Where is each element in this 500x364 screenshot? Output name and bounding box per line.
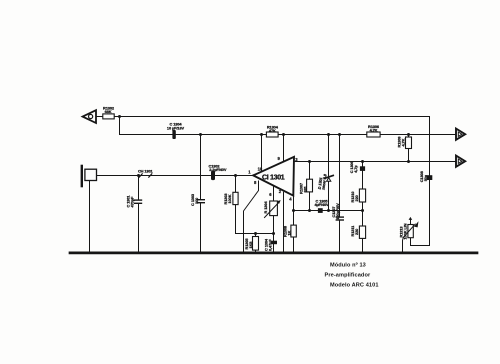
node junction rail2 R1309 [407, 133, 410, 136]
capacitor C1308 [427, 175, 433, 180]
wire rail2 [120, 134, 456, 136]
wire pin2 path [283, 192, 285, 252]
node junction rail2 D1301 [327, 133, 330, 136]
wire right vertical from top rail [411, 117, 430, 246]
connector output triangle 2 [456, 156, 465, 167]
svg-text:CI 1301: CI 1301 [262, 173, 285, 181]
resistor R1308 [291, 225, 296, 237]
capacitor C1301 [135, 200, 142, 203]
svg-text:1K8: 1K8 [248, 241, 253, 249]
svg-text:120µF/6V: 120µF/6V [335, 203, 340, 220]
resistor R1309 [406, 137, 412, 149]
node junction rail2 pin9 [282, 133, 285, 136]
wire pin6 path [273, 186, 275, 253]
wire R1307 branch [309, 162, 311, 211]
node junction rail2 C1303 [199, 133, 202, 136]
node junction top rail [118, 115, 121, 118]
node junction rail2 C1307 [338, 133, 341, 136]
svg-text:4µF/40V: 4µF/40V [314, 202, 329, 207]
wire feedback line [294, 210, 363, 212]
svg-text:CH 1301: CH 1301 [138, 168, 154, 173]
wire C1307 branch [339, 135, 341, 253]
resistor R1305 [253, 237, 259, 251]
svg-text:100K LIN: 100K LIN [402, 223, 407, 239]
node junction R1305 top [254, 232, 257, 235]
node junction feedback R1307 [308, 209, 311, 212]
op-amp CI1301 [253, 157, 294, 196]
capacitor C1303 [197, 200, 204, 203]
svg-text:Módulo nº 13: Módulo nº 13 [330, 263, 366, 269]
svg-text:100: 100 [194, 198, 199, 204]
wire R1303 branch [236, 176, 274, 234]
wire R1308 branch [293, 211, 295, 253]
svg-text:0,47µF: 0,47µF [267, 239, 272, 251]
capacitor C1307 [336, 217, 343, 220]
transducer bar [81, 165, 83, 188]
connector input triangle [83, 110, 96, 123]
capacitor C1304A [271, 241, 277, 245]
node junction rail3 R1307 [308, 160, 311, 163]
connector output triangle 1 [456, 129, 465, 140]
resistor R1311 [359, 226, 365, 238]
svg-text:9: 9 [278, 156, 281, 161]
svg-text:4: 4 [289, 197, 292, 202]
svg-text:470pF: 470pF [130, 196, 135, 207]
svg-text:10: 10 [258, 167, 263, 172]
resistor R1302 [103, 114, 114, 119]
transducer box [85, 169, 97, 180]
wire pot top stub [410, 220, 412, 225]
svg-text:4,7K: 4,7K [370, 128, 378, 133]
ground rail [70, 252, 477, 255]
trimmer R1304A arrow [265, 200, 281, 217]
svg-text:4,7K: 4,7K [400, 138, 405, 146]
resistor R1310 [359, 189, 365, 202]
svg-text:68K: 68K [105, 109, 112, 114]
wire top rail [96, 116, 430, 118]
svg-text:220: 220 [354, 195, 359, 201]
svg-text:8: 8 [254, 180, 257, 185]
svg-text:681: 681 [302, 185, 307, 192]
svg-text:4,7µ: 4,7µ [353, 165, 358, 173]
capacitor C1306 [360, 166, 365, 171]
trimmer R1304A box [270, 201, 278, 216]
resistor R1304 [266, 132, 278, 137]
wire R1309 branch [408, 135, 410, 162]
capacitor C1302 [211, 171, 215, 180]
switch CH1301 [139, 174, 152, 177]
svg-text:47K: 47K [269, 128, 276, 133]
wire pin9 branch [283, 135, 285, 163]
resistor R1303 [233, 192, 238, 204]
node junction rail2 pin10 [260, 133, 263, 136]
capacitor C1305 [318, 208, 323, 213]
svg-text:Modelo ARC 4101: Modelo ARC 4101 [330, 282, 379, 288]
potentiometer R1313 top marker [409, 217, 413, 220]
wire C1306 R1310 R1311 branch [362, 162, 364, 253]
svg-text:100K: 100K [227, 194, 232, 203]
wire input signal [97, 175, 254, 177]
wire R1305 branch [255, 234, 257, 253]
capacitor C1304 [172, 130, 175, 139]
wire D1301 branch [328, 135, 330, 211]
wire pot bottom connection [410, 238, 412, 246]
potentiometer R1313 box [408, 225, 413, 238]
node junction feedback R1310 [361, 209, 364, 212]
node junction feedback D1301 [327, 209, 330, 212]
wire pin4 to feedback node [293, 196, 295, 211]
resistor R1307 [307, 179, 313, 192]
svg-text:zener 6,8: zener 6,8 [320, 173, 327, 191]
node junction feedback pin4 [292, 209, 295, 212]
wire transducer ground [89, 181, 91, 253]
node junction input R1303 [234, 174, 237, 177]
svg-text:2,2µF/40V: 2,2µF/40V [209, 167, 227, 172]
diode D1301 zener [324, 176, 333, 182]
wire rail3 output [294, 161, 456, 163]
wire C1301 branch [138, 176, 140, 253]
wire pin8 path [244, 181, 259, 253]
svg-text:50µ: 50µ [423, 174, 428, 181]
svg-text:Pre-amplificador: Pre-amplificador [325, 273, 371, 279]
wire pin10 branch [261, 135, 263, 172]
svg-text:10 µF/16V: 10 µF/16V [167, 125, 185, 130]
wire pot wiper to ground [402, 238, 405, 253]
wire drop from top rail to rail2 [119, 117, 121, 135]
svg-text:1: 1 [248, 170, 251, 175]
node junction rail3 C1306 [361, 160, 364, 163]
node junction pin6 bottom [272, 232, 275, 235]
svg-text:220: 220 [354, 229, 359, 235]
node junction rail3 R1309 [407, 160, 410, 163]
wire C1303 branch [200, 135, 202, 253]
svg-text:1K: 1K [287, 230, 292, 235]
resistor R1306 [367, 132, 380, 137]
node junction input C1301 [137, 174, 140, 177]
svg-text:R 1304: R 1304 [263, 201, 268, 214]
svg-text:6: 6 [269, 192, 272, 197]
potentiometer R1313 wiper arrow [403, 221, 418, 237]
